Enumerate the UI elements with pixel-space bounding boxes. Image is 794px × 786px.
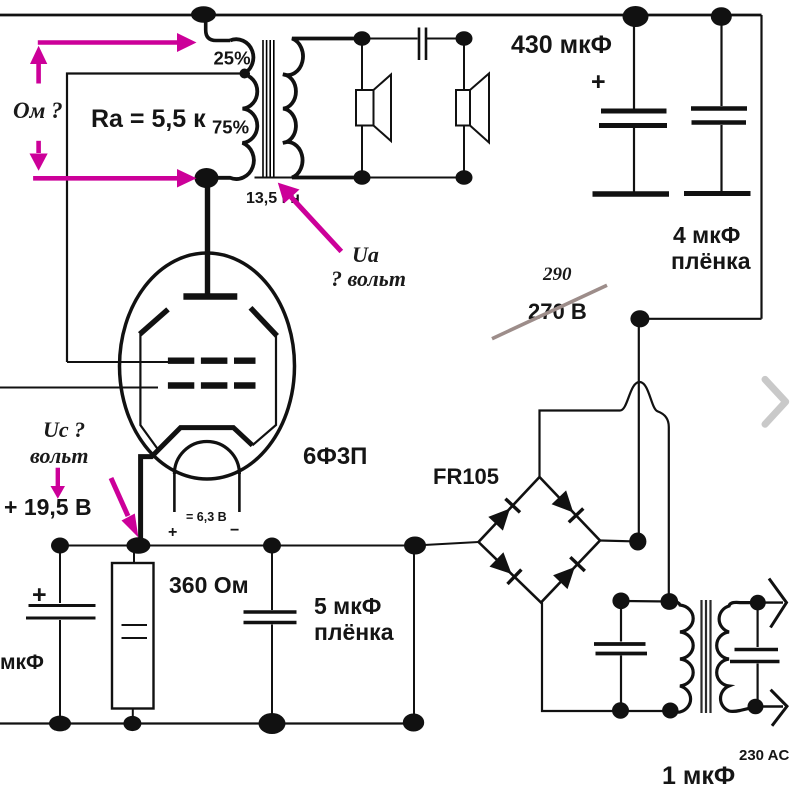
node speaker tr xyxy=(456,31,473,46)
diode D1 left-top xyxy=(488,499,520,531)
svg-text:плёнка: плёнка xyxy=(671,248,751,274)
wire resistor stems xyxy=(133,546,135,564)
screen side left xyxy=(140,334,159,452)
capacitor C6 1uF plates xyxy=(594,644,647,654)
node speaker tl xyxy=(354,31,371,46)
wire cathode row xyxy=(0,542,479,724)
wire B+ node to right rail xyxy=(640,318,762,320)
node ground top xyxy=(404,537,426,555)
wire primary top drop xyxy=(206,16,230,41)
node T2 tl xyxy=(612,593,629,610)
wire bottom rail xyxy=(0,722,414,724)
svg-text:? вольт: ? вольт xyxy=(331,266,406,291)
svg-text:230 AC: 230 AC xyxy=(739,747,789,764)
capacitor C1 430uF electrolytic xyxy=(593,16,670,194)
node bridge plus xyxy=(629,533,646,551)
svg-text:75%: 75% xyxy=(212,117,249,138)
svg-text:25%: 25% xyxy=(214,48,251,69)
node rail c2 xyxy=(711,7,732,26)
node rail bl 4 xyxy=(403,714,424,732)
svg-text:Ra = 5,5 к: Ra = 5,5 к xyxy=(91,105,206,133)
diode D3 left-bottom xyxy=(490,552,522,584)
speaker LS1 xyxy=(356,75,391,142)
heater leg left xyxy=(173,474,176,512)
wire B+ vertical to bridge xyxy=(638,319,640,542)
svg-text:−: − xyxy=(230,522,239,539)
wire T2 top link xyxy=(621,600,670,603)
wire left cap stem xyxy=(59,546,61,604)
arrow magenta to 13.5 xyxy=(291,197,341,251)
svg-text:плёнка: плёнка xyxy=(314,619,394,645)
wire speaker LS2 vertical xyxy=(463,39,465,178)
wire speaker LS1 vertical xyxy=(361,39,363,178)
wire bridge bottom to transformer xyxy=(542,603,671,712)
diode D2 top-right xyxy=(552,490,584,522)
node rail bl 2 xyxy=(123,716,141,731)
wire anode lead xyxy=(205,178,210,294)
wire 5uF stems xyxy=(271,546,273,611)
wire right vertical rail xyxy=(760,15,762,319)
wire speaker bottom link xyxy=(255,177,465,179)
svg-text:FR105: FR105 xyxy=(433,464,499,489)
arrow mains top xyxy=(758,579,787,628)
svg-text:мкФ: мкФ xyxy=(0,651,44,674)
svg-text:4 мкФ: 4 мкФ xyxy=(673,222,740,248)
arrow magenta down xyxy=(36,141,41,153)
node cap4 top xyxy=(51,538,69,554)
node T2 tm xyxy=(661,593,679,610)
arrow magenta to cathode node xyxy=(111,478,128,516)
svg-text:290: 290 xyxy=(542,264,572,285)
svg-text:+ 19,5 В: + 19,5 В xyxy=(4,494,92,520)
wire grid1 to tap box xyxy=(67,361,168,363)
capacitor C5 5uF film plates xyxy=(244,612,297,623)
transformer T2 primary winding xyxy=(670,601,694,712)
node anode junction xyxy=(195,168,219,188)
node rail c1 xyxy=(623,6,649,27)
capacitor C2 4uF film xyxy=(684,16,751,194)
capacitor C4 electrolytic left plates xyxy=(26,606,96,619)
svg-text:Uа: Uа xyxy=(352,242,379,267)
anode side right xyxy=(251,308,278,336)
node rail bl 1 xyxy=(49,716,71,732)
node cathode xyxy=(126,537,150,554)
cathode and lead xyxy=(141,428,253,543)
capacitor crossover top plates xyxy=(418,28,421,61)
arrow mains bottom xyxy=(756,690,788,726)
svg-text:1 мкФ: 1 мкФ xyxy=(662,762,735,786)
wire ground drop xyxy=(413,546,415,723)
transformer T1 secondary winding xyxy=(283,39,362,178)
heater arc xyxy=(174,442,239,475)
node T2 bl xyxy=(612,702,629,718)
strike line over 270V xyxy=(492,285,607,338)
capacitor C7 mains stems xyxy=(756,603,758,707)
node tap xyxy=(240,69,250,79)
node B+ xyxy=(630,310,649,327)
svg-text:+: + xyxy=(591,68,606,96)
node cap5 top xyxy=(263,538,281,554)
wire bridge AC1 with hop over xyxy=(540,382,669,601)
capacitor C7 mains plates xyxy=(730,650,780,662)
chevron carousel xyxy=(765,379,786,424)
svg-text:5 мкФ: 5 мкФ xyxy=(314,593,381,619)
grid row 1 dashes xyxy=(168,358,256,364)
svg-text:вольт: вольт xyxy=(30,443,88,468)
arrow magenta top horizontal xyxy=(38,40,180,45)
wire bridge right to node xyxy=(600,541,638,542)
svg-text:430 мкФ: 430 мкФ xyxy=(511,31,612,59)
node speaker br xyxy=(456,170,473,185)
resistor R1 360 Ohm xyxy=(112,563,154,709)
node speaker bl xyxy=(354,170,371,185)
screen side right xyxy=(252,336,276,445)
svg-text:= 6,3 В: = 6,3 В xyxy=(186,510,227,524)
tube V1 6F3P envelope xyxy=(120,253,295,479)
node T2 br xyxy=(748,699,764,715)
MAGENTA ANNOTATIONS xyxy=(30,33,342,538)
wire top B+ rail xyxy=(0,14,762,17)
arrow magenta up xyxy=(36,62,41,84)
node rail bl 3 xyxy=(259,713,286,734)
svg-text:+: + xyxy=(168,524,177,541)
diode D4 bottom-right xyxy=(553,557,585,589)
arrow magenta lower horizontal xyxy=(33,176,180,181)
svg-text:Uс ?: Uс ? xyxy=(43,417,85,442)
node T2 bm xyxy=(662,703,678,719)
svg-text:Ом ?: Ом ? xyxy=(13,98,63,123)
wire tap 25% xyxy=(67,74,250,363)
arrow magenta down small xyxy=(56,468,60,487)
wire speaker top link xyxy=(362,38,418,40)
svg-text:270 В: 270 В xyxy=(528,299,587,324)
wire grid2 to left edge xyxy=(0,387,158,389)
anode side left xyxy=(140,309,168,334)
capacitor C6 1uF stems xyxy=(620,601,622,711)
transformer T2 core xyxy=(702,600,711,713)
svg-text:6Ф3П: 6Ф3П xyxy=(303,443,367,470)
transformer T1 core xyxy=(263,40,274,178)
speaker LS2 xyxy=(456,74,489,143)
heater leg right xyxy=(238,474,241,512)
node T2 tr xyxy=(750,595,766,611)
anode plate bar xyxy=(183,293,237,300)
bridge rectifier FR105 xyxy=(479,477,601,603)
svg-text:+: + xyxy=(32,581,47,609)
node top rail left xyxy=(191,6,216,22)
svg-text:360 Ом: 360 Ом xyxy=(169,572,249,598)
transformer T2 secondary winding xyxy=(717,602,758,711)
grid row 2 dashes xyxy=(168,382,256,388)
transformer T1 primary winding xyxy=(212,39,257,179)
wire node to bridge left xyxy=(415,542,479,546)
